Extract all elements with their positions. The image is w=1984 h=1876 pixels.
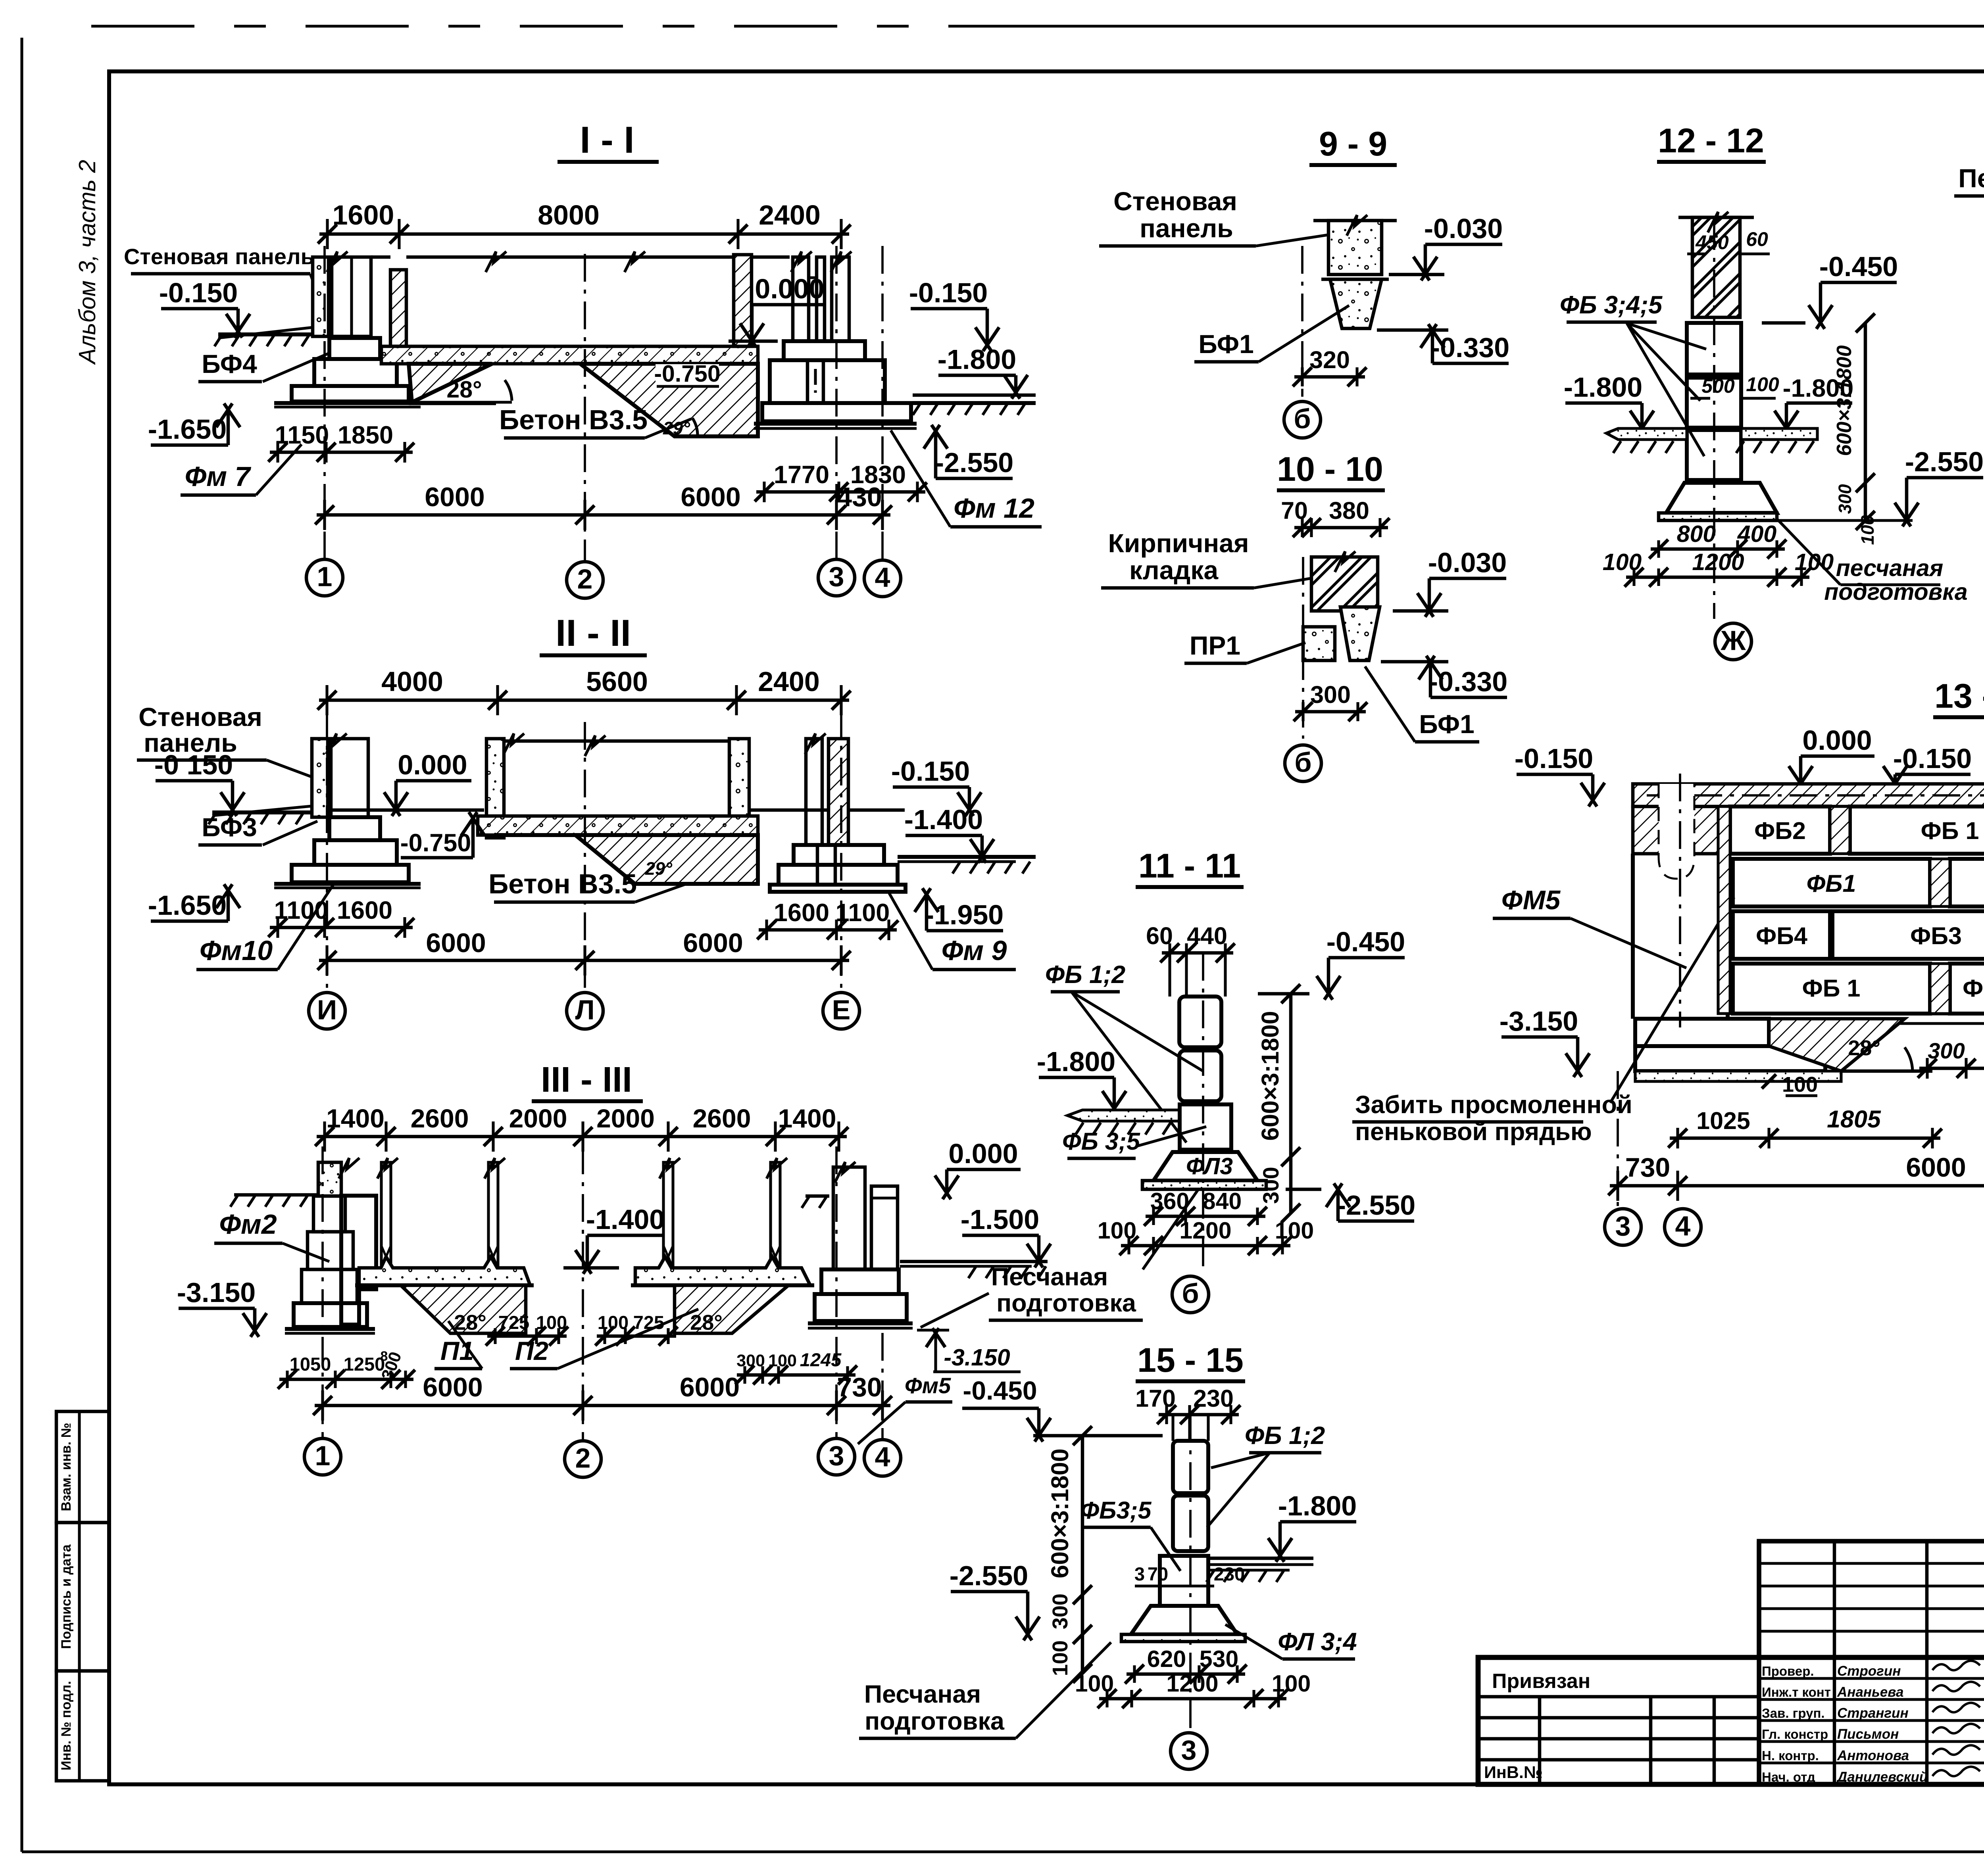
svg-text:Фм10: Фм10 — [200, 935, 273, 966]
axis circle 4 — [864, 560, 901, 597]
svg-text:БФ3: БФ3 — [202, 812, 257, 842]
svg-text:0.000: 0.000 — [398, 749, 467, 780]
axis circle I — [309, 993, 345, 1029]
svg-text:440: 440 — [1187, 922, 1227, 949]
section III-III concrete wedge left — [401, 1285, 526, 1333]
svg-text:28°: 28° — [1848, 1036, 1880, 1060]
section 12-12 dim 800/400 — [1651, 547, 1785, 551]
svg-text:Перегородка: Перегородка — [1958, 163, 1984, 193]
svg-text:1050: 1050 — [290, 1354, 331, 1375]
section 11-11 dim 360/840 — [1146, 1215, 1265, 1218]
section 13-13 top floor band hatched — [1633, 784, 1984, 806]
svg-text:-0 150: -0 150 — [154, 749, 233, 780]
svg-text:100: 100 — [536, 1312, 567, 1333]
svg-text:4: 4 — [1675, 1211, 1691, 1242]
svg-text:9 - 9: 9 - 9 — [1319, 125, 1387, 163]
section 11-11 wall lines — [1168, 953, 1171, 997]
svg-text:2600: 2600 — [411, 1104, 469, 1133]
axis circle Zh — [1715, 623, 1751, 660]
section III-III bottom axis dimension — [315, 1404, 890, 1407]
svg-text:300: 300 — [1048, 1594, 1072, 1629]
svg-text:1850: 1850 — [338, 421, 393, 449]
svg-text:13 - 13: 13 - 13 — [1934, 677, 1984, 715]
section II-II right foundation stack — [794, 845, 884, 865]
svg-text:Ананьева: Ананьева — [1837, 1684, 1903, 1700]
svg-text:И: И — [317, 995, 337, 1025]
svg-text:Зав. груп.: Зав. груп. — [1762, 1706, 1825, 1720]
section 15-15 centerline — [1189, 1415, 1192, 1731]
svg-text:-0.030: -0.030 — [1428, 547, 1507, 578]
svg-text:ПР1: ПР1 — [1190, 631, 1240, 660]
section II-II left ground line — [212, 810, 311, 814]
svg-text:29°: 29° — [663, 418, 690, 438]
svg-text:Строгин: Строгин — [1837, 1663, 1901, 1679]
section I-I dim 1150/1850 — [270, 451, 413, 454]
svg-text:1770: 1770 — [774, 461, 829, 489]
section I-I concrete wedge right — [580, 364, 758, 436]
section II-II pit left wall — [486, 739, 504, 838]
svg-text:800: 800 — [1677, 521, 1716, 547]
svg-text:-1.650: -1.650 — [148, 890, 227, 921]
svg-text:Нач. отд: Нач. отд — [1762, 1770, 1815, 1784]
svg-text:1200: 1200 — [1692, 549, 1744, 575]
svg-text:380: 380 — [1329, 497, 1369, 524]
section III-III axis centerlines — [321, 1146, 324, 1440]
section 9-9 wall panel — [1313, 219, 1397, 223]
section 11-11 block 1 — [1179, 997, 1221, 1047]
svg-text:Фм 12: Фм 12 — [954, 493, 1034, 524]
section II-II pit floor slab — [478, 816, 758, 835]
svg-text:2400: 2400 — [759, 200, 821, 230]
axis circle b (11-11) — [1172, 1276, 1209, 1313]
svg-text:320: 320 — [1309, 346, 1350, 373]
svg-text:Забить просмоленной: Забить просмоленной — [1355, 1091, 1632, 1119]
svg-text:60: 60 — [1146, 922, 1173, 949]
section 12-12 footing slab — [1659, 513, 1777, 520]
section III-III right foundation — [833, 1167, 865, 1269]
svg-text:230: 230 — [1193, 1385, 1234, 1412]
section II-II pit right wall — [729, 739, 749, 838]
svg-text:-0.150: -0.150 — [159, 277, 238, 308]
axis circle 4 bottom — [864, 1440, 901, 1476]
svg-text:-2.550: -2.550 — [935, 447, 1013, 478]
svg-text:300: 300 — [1928, 1038, 1965, 1063]
svg-text:8000: 8000 — [538, 200, 600, 230]
svg-text:11 - 11: 11 - 11 — [1138, 847, 1241, 885]
svg-text:28°: 28° — [446, 376, 482, 403]
section 11-11 dim 60/440 — [1162, 951, 1233, 955]
svg-text:100: 100 — [1603, 549, 1642, 575]
svg-text:100: 100 — [1746, 373, 1779, 396]
svg-text:П2: П2 — [515, 1336, 548, 1365]
svg-text:1200: 1200 — [1166, 1671, 1218, 1697]
svg-text:подготовка: подготовка — [996, 1289, 1136, 1317]
svg-text:1100: 1100 — [836, 899, 890, 927]
svg-text:подготовка: подготовка — [1824, 579, 1967, 605]
section 11-11 block 2 — [1179, 1050, 1221, 1101]
svg-text:-1.800: -1.800 — [1037, 1046, 1115, 1077]
section 10-10 dim 300 — [1295, 710, 1366, 714]
section I-I right wall hatched pier — [734, 255, 752, 346]
svg-text:4: 4 — [875, 562, 890, 593]
svg-text:б: б — [1294, 747, 1311, 778]
section 10-10 centerline — [1302, 557, 1304, 739]
svg-text:Бетон В3.5: Бетон В3.5 — [499, 404, 648, 435]
section 13-13 bottom axis dimension — [1610, 1184, 1984, 1188]
section 13-13 footing steps — [1635, 1019, 1769, 1046]
svg-text:БФ1: БФ1 — [1198, 329, 1254, 359]
section 11-11 right vertical dim 600x3:1800 — [1289, 994, 1293, 1213]
section 11-11 footing slab — [1142, 1181, 1266, 1189]
section III-III right ground — [806, 1194, 829, 1198]
section 11-11 centerline — [1202, 953, 1204, 1274]
section 10-10 brick column — [1311, 557, 1378, 611]
svg-text:ФБ3: ФБ3 — [1910, 922, 1962, 949]
section 13-13 joint hatch left edge — [1718, 806, 1730, 1014]
section 15-15 footing FL — [1131, 1606, 1237, 1634]
axis circle 3 bottom — [818, 1438, 855, 1475]
svg-text:-0.150: -0.150 — [891, 756, 970, 787]
section 13-13 dim 1025/1805 — [1670, 1137, 1940, 1140]
section II-II dim 1600/1100 — [759, 928, 897, 932]
svg-text:-0.450: -0.450 — [963, 1376, 1037, 1405]
svg-text:2000: 2000 — [509, 1104, 567, 1133]
svg-text:1600: 1600 — [333, 200, 394, 230]
svg-text:панель: панель — [1140, 213, 1233, 243]
svg-text:100: 100 — [1782, 1073, 1818, 1096]
svg-text:3: 3 — [1181, 1735, 1197, 1766]
svg-text:1: 1 — [317, 561, 333, 592]
svg-text:-1.800: -1.800 — [1564, 372, 1642, 403]
axis circle b (9-9) — [1284, 401, 1321, 438]
svg-text:ФБ4: ФБ4 — [1756, 922, 1807, 949]
section 15-15 dim 100/1200/100 — [1099, 1697, 1286, 1701]
svg-text:III - III: III - III — [541, 1060, 632, 1100]
axis circle 3 — [818, 559, 855, 596]
svg-text:-2.550: -2.550 — [950, 1560, 1028, 1591]
svg-text:кладка: кладка — [1129, 555, 1219, 585]
svg-text:-0.750: -0.750 — [654, 361, 720, 387]
svg-text:2600: 2600 — [693, 1104, 751, 1133]
svg-text:ФБ 3;4;5: ФБ 3;4;5 — [1560, 291, 1663, 319]
svg-text:Е: Е — [832, 995, 851, 1025]
svg-text:БФ1: БФ1 — [1419, 709, 1475, 739]
section III-III posts left pair — [381, 1162, 391, 1268]
section 10-10 block PR1 — [1303, 627, 1335, 661]
axis circle E — [823, 993, 859, 1029]
svg-text:60: 60 — [1746, 228, 1768, 250]
section 15-15 footing slab — [1121, 1634, 1245, 1642]
svg-text:6000: 6000 — [683, 928, 743, 958]
svg-text:-0.030: -0.030 — [1424, 213, 1503, 244]
svg-text:-0.150: -0.150 — [909, 277, 988, 308]
svg-text:Песчаная: Песчаная — [864, 1680, 981, 1708]
svg-text:28°: 28° — [454, 1311, 486, 1335]
svg-text:Альбом 3, часть 2: Альбом 3, часть 2 — [74, 160, 100, 365]
section 15-15 ground strip right — [1208, 1557, 1313, 1560]
section I-I top dimension 1600/8000/2400 — [319, 232, 849, 236]
svg-text:I - I: I - I — [580, 119, 634, 161]
svg-text:ФБ3;5: ФБ3;5 — [1080, 1497, 1152, 1524]
svg-text:II - II: II - II — [556, 612, 631, 654]
axis circle L — [567, 993, 603, 1029]
svg-text:730: 730 — [837, 1372, 882, 1402]
svg-text:840: 840 — [1203, 1188, 1242, 1214]
section I-I right foundation stack — [784, 341, 865, 360]
svg-text:ФБ 3;5: ФБ 3;5 — [1062, 1128, 1140, 1155]
section 15-15 dim 620/530 — [1127, 1672, 1245, 1676]
section I-I left foundation stack — [329, 338, 380, 359]
svg-text:Песчаная: Песчаная — [991, 1263, 1108, 1291]
section 12-12 ground strip left — [1606, 428, 1687, 440]
svg-text:-0.750: -0.750 — [400, 829, 471, 857]
section II-II left wall panel — [312, 739, 328, 817]
section 12-12 ground strip right — [1741, 428, 1817, 440]
title block outer box — [1478, 1657, 1984, 1784]
svg-text:Фм 7: Фм 7 — [185, 461, 252, 492]
svg-text:-1.800: -1.800 — [1278, 1490, 1357, 1521]
section 11-11 block FB3;5 — [1180, 1104, 1231, 1150]
svg-text:Стеновая: Стеновая — [1113, 186, 1237, 216]
svg-text:6000: 6000 — [423, 1372, 483, 1402]
svg-text:-3.150: -3.150 — [177, 1277, 256, 1308]
section 12-12 footing — [1666, 483, 1777, 513]
section III-III left foundation pier — [318, 1162, 341, 1196]
svg-text:620: 620 — [1147, 1646, 1186, 1672]
svg-text:70: 70 — [1148, 1563, 1168, 1584]
svg-text:600×3:1800: 600×3:1800 — [1257, 1011, 1284, 1141]
svg-text:430: 430 — [837, 482, 882, 512]
svg-text:Привязан: Привязан — [1492, 1670, 1590, 1693]
svg-text:ИнВ.№: ИнВ.№ — [1484, 1763, 1543, 1782]
section 13-13 bottom sand line — [1841, 1012, 1984, 1015]
section 10-10 dim 70/380 — [1294, 526, 1388, 530]
svg-text:Письмон: Письмон — [1837, 1726, 1899, 1742]
svg-text:1805: 1805 — [1827, 1106, 1881, 1133]
axis circle 3 (13-13) — [1605, 1209, 1641, 1245]
left margin boxes — [56, 1411, 109, 1523]
section III-III dim 100/725 right — [597, 1335, 676, 1338]
section I-I concrete wedge left — [409, 364, 492, 402]
section III-III top dimension 1400/2600/2000/2000/2600/1400 — [317, 1135, 847, 1139]
svg-text:-1.650: -1.650 — [148, 414, 227, 445]
svg-text:ФБ1: ФБ1 — [1807, 870, 1856, 897]
section III-III posts right pair — [663, 1162, 673, 1268]
svg-text:530: 530 — [1200, 1646, 1238, 1672]
section 15-15 block 2 — [1173, 1496, 1208, 1551]
svg-text:ФБ 1;2: ФБ 1;2 — [1245, 1422, 1325, 1450]
section 12-12 centerline — [1713, 222, 1715, 619]
svg-text:-3.150: -3.150 — [1500, 1006, 1578, 1037]
axis circle 3 (15-15) — [1171, 1733, 1207, 1769]
axis circle 2 bottom — [565, 1441, 601, 1477]
svg-text:Фм5: Фм5 — [905, 1373, 951, 1398]
svg-text:-0.330: -0.330 — [1429, 666, 1507, 697]
svg-text:29°: 29° — [645, 858, 673, 879]
section 11-11 footing FL3 — [1153, 1152, 1257, 1181]
svg-text:730: 730 — [1625, 1152, 1670, 1183]
svg-text:600×3:1800: 600×3:1800 — [1833, 345, 1856, 456]
svg-text:2400: 2400 — [758, 666, 820, 697]
section I-I axis centerlines — [323, 246, 326, 559]
svg-text:Ж: Ж — [1720, 625, 1746, 656]
svg-text:-0.450: -0.450 — [1327, 926, 1405, 957]
section I-I level -0.750 boxed — [656, 364, 719, 386]
svg-text:2: 2 — [575, 1443, 591, 1474]
svg-text:1400: 1400 — [326, 1104, 384, 1133]
section II-II concrete wedge — [495, 835, 758, 884]
svg-text:100: 100 — [1275, 1217, 1314, 1244]
axis circle b (10-10) — [1285, 745, 1321, 782]
svg-text:-1.400: -1.400 — [904, 804, 983, 835]
section 15-15 dim 170/230 — [1159, 1413, 1239, 1417]
section II-II right foundation columns — [806, 739, 822, 845]
section II-II bottom axis dimension — [319, 959, 849, 962]
section 15-15 block FB3;5 — [1160, 1556, 1208, 1606]
title block left privyazan box — [1757, 1541, 1761, 1784]
svg-text:170: 170 — [1135, 1385, 1176, 1412]
svg-text:6000: 6000 — [1906, 1152, 1966, 1183]
svg-text:ФБ5: ФБ5 — [1963, 975, 1984, 1002]
svg-text:300: 300 — [1835, 484, 1855, 514]
svg-text:3: 3 — [829, 561, 844, 592]
sheet top edge (partially dashed) — [91, 25, 1052, 27]
section 13-13 left wall centerline — [1679, 774, 1681, 1027]
svg-text:Л: Л — [575, 995, 594, 1025]
section 13-13 dim 300/1800/1050/1050 — [1919, 1067, 1984, 1070]
section 10-10 block BF1 lower — [1340, 607, 1380, 661]
section I-I bottom axis dimension — [317, 513, 890, 517]
svg-text:1100: 1100 — [274, 897, 329, 924]
section 11-11 dim 100/1200/100 — [1121, 1244, 1290, 1248]
svg-text:12 - 12: 12 - 12 — [1658, 122, 1764, 160]
svg-text:песчаная: песчаная — [1836, 555, 1944, 581]
svg-text:15 - 15: 15 - 15 — [1137, 1341, 1244, 1379]
svg-text:100: 100 — [1098, 1217, 1136, 1244]
section III-III concrete wedge right — [675, 1285, 788, 1333]
svg-text:ФЛ3: ФЛ3 — [1186, 1153, 1233, 1179]
section 15-15 block 1 — [1173, 1441, 1208, 1493]
section 13-13 concrete wedge 28deg — [1769, 1019, 1905, 1071]
svg-text:450: 450 — [1695, 231, 1729, 253]
section I-I floor slab — [406, 255, 734, 259]
svg-text:Фм2: Фм2 — [219, 1209, 277, 1240]
svg-text:Взам. инв. №: Взам. инв. № — [59, 1423, 74, 1511]
svg-text:3: 3 — [1134, 1563, 1145, 1584]
section I-I left wall hatched pier — [390, 270, 406, 346]
section 13-13 block row 2 — [1733, 859, 1930, 906]
svg-text:-1.800: -1.800 — [938, 344, 1016, 375]
svg-text:-0.450: -0.450 — [1819, 251, 1898, 282]
svg-text:1200: 1200 — [1179, 1217, 1231, 1244]
section II-II dim 1100/1600 — [270, 926, 413, 929]
svg-text:6000: 6000 — [426, 928, 486, 958]
section 12-12 block 1 — [1687, 323, 1741, 374]
svg-text:10 - 10: 10 - 10 — [1277, 450, 1383, 488]
svg-text:ФБ 1: ФБ 1 — [1921, 817, 1979, 844]
axis circle 4 (13-13) — [1665, 1209, 1701, 1245]
sheet outer border — [20, 38, 23, 1852]
svg-text:100: 100 — [1048, 1640, 1072, 1676]
section 9-9 block BF1 — [1330, 279, 1382, 328]
svg-text:100: 100 — [598, 1312, 629, 1333]
svg-text:8: 8 — [381, 1349, 388, 1364]
svg-text:-1.500: -1.500 — [961, 1204, 1039, 1235]
section 13-13 axis centerlines — [1617, 1071, 1619, 1208]
section II-II left foundation stack — [329, 817, 380, 840]
svg-text:Н. контр.: Н. контр. — [1762, 1748, 1819, 1763]
svg-text:1600: 1600 — [774, 899, 829, 927]
svg-text:100: 100 — [1272, 1671, 1311, 1697]
section 15-15 left vertical dim 600x3:1800 — [1081, 1436, 1084, 1673]
section III-III dims 300/100/1245 right — [737, 1373, 856, 1377]
section 13-13 block row 3 — [1733, 911, 1830, 959]
svg-text:Инв. № подл.: Инв. № подл. — [59, 1681, 74, 1770]
svg-text:300: 300 — [1310, 681, 1351, 708]
svg-text:3: 3 — [829, 1440, 844, 1471]
section I-I right ground line — [913, 401, 1036, 405]
section III-III dims 1050/1250/300 left — [279, 1378, 413, 1381]
section 12-12 right vertical dim 600x3:1800 — [1864, 323, 1867, 520]
svg-text:Стеновая: Стеновая — [138, 702, 262, 732]
svg-text:ФМ5: ФМ5 — [1501, 885, 1561, 915]
svg-text:4: 4 — [875, 1442, 890, 1473]
section 12-12 block 3 — [1687, 430, 1741, 480]
section III-III left ground — [234, 1193, 317, 1197]
svg-text:3: 3 — [1615, 1211, 1631, 1242]
section III-III left retaining wall — [341, 1196, 376, 1325]
section 12-12 brick wall — [1692, 217, 1740, 317]
svg-text:Бетон В3.5: Бетон В3.5 — [488, 868, 637, 899]
svg-text:Гл. констр: Гл. констр — [1762, 1727, 1828, 1742]
svg-text:подготовка: подготовка — [865, 1707, 1005, 1735]
svg-text:ФБ 1;2: ФБ 1;2 — [1045, 961, 1125, 989]
svg-text:БФ4: БФ4 — [202, 349, 257, 378]
svg-text:-3.150: -3.150 — [944, 1344, 1010, 1371]
svg-text:600×3:1800: 600×3:1800 — [1046, 1448, 1073, 1578]
svg-text:1250: 1250 — [344, 1354, 385, 1375]
axis circle 1 bottom — [304, 1438, 341, 1475]
svg-text:6000: 6000 — [680, 1372, 740, 1402]
section II-II top dimension 4000/5600/2400 — [319, 699, 849, 702]
svg-text:4000: 4000 — [381, 666, 443, 697]
section 13-13 block row 4 — [1733, 964, 1930, 1014]
svg-text:-2.550: -2.550 — [1905, 446, 1984, 477]
svg-text:28°: 28° — [690, 1311, 723, 1335]
section 13-13 left anchor pocket dashed — [1659, 784, 1694, 879]
svg-text:б: б — [1294, 403, 1311, 434]
svg-text:Антонова: Антонова — [1837, 1748, 1909, 1763]
section 15-15 wall top lines — [1171, 1415, 1174, 1441]
svg-text:Данилевский: Данилевский — [1836, 1769, 1928, 1785]
svg-text:Стеновая панель: Стеновая панель — [124, 244, 314, 269]
svg-text:1600: 1600 — [337, 897, 392, 924]
svg-text:0.000: 0.000 — [1802, 725, 1872, 756]
section II-II axis centerlines — [326, 710, 328, 992]
svg-text:ФЛ 3;4: ФЛ 3;4 — [1278, 1628, 1357, 1656]
svg-text:2000: 2000 — [596, 1104, 655, 1133]
section I-I left ground line — [218, 332, 313, 336]
section 13-13 left wall hatched — [1633, 806, 1728, 854]
title block signatures squiggles — [1932, 1661, 1980, 1670]
section I-I left wall panel — [313, 257, 329, 336]
svg-text:400: 400 — [1737, 521, 1777, 547]
svg-text:б: б — [1182, 1278, 1199, 1309]
section 11-11 ground strip — [1067, 1110, 1180, 1121]
section 13-13 left wall body — [1631, 854, 1635, 1019]
section 13-13 block row 1 — [1730, 806, 1830, 854]
svg-text:6000: 6000 — [425, 482, 484, 512]
